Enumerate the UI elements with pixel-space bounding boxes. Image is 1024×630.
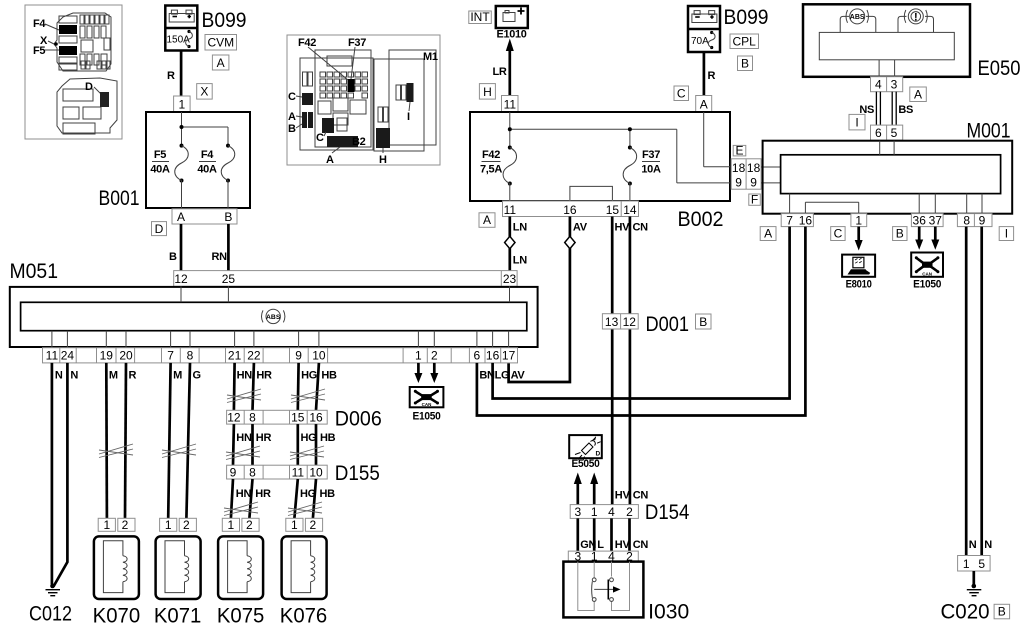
svg-text:11: 11	[292, 466, 305, 480]
fuse F5 40A	[175, 146, 189, 181]
M051 top pin strip 12 25 23	[174, 271, 517, 287]
svg-text:1: 1	[104, 518, 111, 532]
CPL box	[730, 34, 759, 49]
pin strip 6 5 on M001 top	[871, 125, 903, 140]
svg-text:M051: M051	[10, 260, 59, 283]
internal jumper pins 16-15	[570, 186, 613, 201]
arrow M001 pin1 to E8010	[857, 227, 860, 242]
svg-text:15: 15	[606, 203, 620, 217]
CVM box	[205, 35, 237, 51]
H box label	[479, 84, 495, 100]
svg-text:ABS: ABS	[850, 14, 865, 21]
svg-text:R: R	[167, 70, 175, 82]
wire LR arrow up to E1010	[508, 49, 511, 96]
connector A black bar	[327, 136, 358, 147]
B box label	[738, 56, 753, 71]
svg-text:HR: HR	[256, 432, 272, 444]
battery B099 right with 70A fuse	[688, 6, 720, 52]
bottom leads	[789, 194, 791, 214]
wheel sensor K076 rear right	[280, 518, 328, 627]
wire R M051-20 to K070-2	[125, 363, 126, 518]
svg-text:CPL: CPL	[733, 35, 757, 49]
left module front panel	[315, 50, 371, 147]
svg-text:E5050: E5050	[572, 458, 600, 470]
svg-text:8: 8	[963, 213, 970, 227]
svg-text:M001: M001	[967, 120, 1011, 143]
svg-text:19: 19	[100, 349, 114, 363]
svg-text:37: 37	[929, 213, 943, 227]
middle square	[81, 40, 93, 52]
connector C black	[322, 118, 334, 133]
svg-text:N: N	[969, 539, 977, 551]
svg-text:F37: F37	[642, 149, 660, 161]
svg-text:2: 2	[431, 349, 438, 363]
B001 bottom pin strip A B	[172, 209, 237, 224]
svg-text:2: 2	[183, 518, 190, 532]
svg-text:13: 13	[605, 315, 619, 329]
svg-text:7: 7	[167, 349, 174, 363]
C box label	[831, 226, 845, 240]
wires pair box to M001 inner	[761, 166, 781, 168]
wire BN M051-6 to M001-16	[477, 227, 806, 416]
svg-text:70A: 70A	[691, 36, 709, 47]
svg-text:5: 5	[891, 126, 898, 140]
ABS symbol	[262, 309, 285, 323]
leads pins 6 5 into inner	[879, 141, 881, 155]
svg-text:21: 21	[228, 349, 242, 363]
svg-text:HV: HV	[615, 222, 631, 234]
svg-text:HR: HR	[256, 370, 272, 382]
I box label	[849, 114, 865, 129]
svg-text:B: B	[699, 315, 707, 329]
connector C020 pins 1 5	[958, 556, 991, 572]
svg-text:I: I	[855, 115, 858, 129]
node E1050 CAN network icon bottom	[410, 387, 444, 423]
twist mark above D006 right	[291, 389, 325, 403]
wire BS double line	[891, 92, 893, 125]
svg-text:INT: INT	[470, 10, 490, 24]
svg-text:11: 11	[504, 97, 517, 111]
svg-text:HN: HN	[236, 488, 252, 500]
svg-text:C020: C020	[941, 601, 990, 624]
svg-text:12: 12	[227, 411, 241, 425]
M001 pin box 1	[851, 213, 867, 227]
wire AV B002-16 to M051-17	[509, 217, 570, 383]
X box label	[197, 84, 213, 100]
A box label	[910, 87, 927, 102]
svg-text:1: 1	[963, 557, 970, 571]
svg-text:LR: LR	[493, 66, 507, 78]
ABS hydraulic unit M051	[10, 287, 538, 347]
svg-text:3: 3	[574, 505, 581, 519]
svg-text:B: B	[288, 123, 296, 135]
B box label	[696, 314, 712, 329]
pin A box on B002 top	[696, 96, 712, 113]
svg-text:K071: K071	[154, 605, 202, 626]
svg-text:I: I	[407, 111, 410, 123]
svg-text:9: 9	[979, 213, 986, 227]
arrows D154-3 D154-1 up to E5050	[576, 482, 579, 505]
svg-text:R: R	[129, 370, 137, 382]
svg-text:F: F	[751, 193, 758, 207]
wheel sensor K071 front right	[154, 518, 202, 627]
svg-text:!: !	[914, 11, 918, 23]
svg-text:HN: HN	[237, 370, 253, 382]
A box label	[760, 226, 776, 240]
svg-text:G: G	[193, 370, 201, 382]
upper fusebox outline	[54, 13, 111, 71]
svg-text:E1050: E1050	[413, 411, 441, 423]
middle squares	[318, 101, 331, 114]
svg-text:K075: K075	[217, 605, 265, 626]
svg-text:1: 1	[165, 518, 172, 532]
svg-text:F42: F42	[482, 149, 500, 161]
I030 pin strip 3 1 4 2	[568, 550, 638, 564]
arrows M051 pins 1 2 to E1050	[417, 363, 420, 375]
I box label	[999, 226, 1013, 240]
svg-text:1: 1	[591, 505, 598, 519]
svg-text:6: 6	[875, 126, 882, 140]
svg-text:K070: K070	[93, 605, 141, 626]
wire HN M051-21 to D006-12	[233, 363, 236, 410]
svg-text:A: A	[483, 213, 491, 227]
svg-text:40A: 40A	[197, 164, 217, 176]
wires D006 to D155 left pair	[232, 424, 236, 465]
ABS warning lamp	[840, 9, 876, 33]
svg-text:C012: C012	[29, 603, 72, 626]
A box label below B002	[479, 213, 495, 228]
svg-text:9: 9	[750, 175, 757, 189]
brake pedal switch I030	[563, 562, 689, 624]
svg-text:CN: CN	[633, 539, 649, 551]
left tabs	[303, 72, 308, 86]
svg-text:HG: HG	[301, 370, 317, 382]
svg-text:B: B	[998, 605, 1006, 619]
instrument cluster E050	[803, 4, 970, 77]
svg-text:HG: HG	[301, 432, 317, 444]
wire M M051-19 to K070-1	[105, 363, 108, 518]
svg-text:6: 6	[474, 349, 481, 363]
E box label	[733, 143, 746, 157]
svg-text:HN: HN	[236, 432, 252, 444]
svg-text:D: D	[596, 451, 601, 458]
svg-text:N: N	[55, 370, 63, 382]
svg-text:ABS: ABS	[266, 314, 281, 321]
wire N M051-11 to C012	[51, 363, 54, 585]
node E8010 diagnostic connector icon	[842, 255, 875, 291]
svg-text:A: A	[288, 111, 296, 123]
M051 bottom pin strip	[43, 348, 518, 363]
right module front	[389, 50, 436, 145]
internal wiring B001	[181, 112, 183, 146]
svg-text:16: 16	[486, 349, 500, 363]
svg-text:24: 24	[61, 349, 75, 363]
svg-text:12: 12	[623, 315, 637, 329]
svg-text:LN: LN	[513, 255, 527, 267]
splice diamond on AV	[565, 236, 575, 248]
svg-text:A: A	[217, 56, 225, 70]
svg-text:M: M	[109, 370, 118, 382]
svg-text:C: C	[834, 226, 843, 240]
svg-text:4: 4	[875, 78, 882, 92]
wheel sensor K075 rear left	[217, 518, 265, 627]
svg-text:B001: B001	[99, 187, 140, 210]
svg-text:1: 1	[228, 518, 235, 532]
svg-text:CAN: CAN	[922, 272, 932, 277]
svg-text:M: M	[173, 370, 182, 382]
relay box B001	[146, 112, 250, 208]
svg-text:B: B	[896, 226, 904, 240]
svg-text:10A: 10A	[641, 164, 661, 176]
svg-text:10: 10	[309, 466, 323, 480]
svg-text:CAN: CAN	[422, 402, 432, 407]
svg-text:F4: F4	[33, 18, 46, 30]
svg-text:14: 14	[623, 203, 637, 217]
svg-text:D006: D006	[335, 408, 382, 431]
svg-text:CN: CN	[633, 490, 649, 502]
inset: body computer connector drawing	[287, 35, 440, 166]
wires D155 to K075	[231, 479, 233, 518]
lower bracket outline	[57, 78, 117, 133]
top row small slots	[80, 15, 84, 24]
wire N M001-9 to C020-5	[980, 227, 983, 556]
svg-text:40A: 40A	[150, 164, 170, 176]
pin 1 box on B001	[174, 96, 191, 112]
connector grid	[320, 72, 326, 77]
M001 pin strip 36 37	[911, 213, 943, 227]
wire M M051-7 to K071-1	[168, 363, 170, 518]
svg-text:25: 25	[222, 272, 236, 286]
fuse F37 10A	[623, 148, 637, 184]
svg-text:C: C	[288, 91, 296, 103]
left module back plate	[300, 58, 373, 150]
svg-text:A: A	[700, 97, 708, 111]
brake warning lamp (!)	[898, 9, 934, 33]
svg-text:10: 10	[312, 349, 326, 363]
svg-text:R: R	[708, 70, 716, 82]
svg-text:E1010: E1010	[497, 29, 527, 41]
svg-text:CVM: CVM	[207, 36, 234, 50]
svg-text:1: 1	[855, 213, 862, 227]
svg-text:4: 4	[608, 505, 615, 519]
wire HG M051-9 to D006-15	[296, 363, 300, 410]
svg-text:3: 3	[891, 78, 898, 92]
wire HR M051-22 to D006-8	[253, 363, 254, 410]
svg-text:E1050: E1050	[913, 278, 941, 290]
svg-text:HV: HV	[615, 490, 631, 502]
connector D001 pins 13 12	[602, 314, 638, 329]
left fuse column slots	[59, 16, 77, 23]
svg-text:F37: F37	[348, 37, 366, 49]
svg-text:H: H	[483, 85, 492, 99]
F42/F37 black cell	[348, 79, 355, 92]
svg-text:2: 2	[246, 518, 253, 532]
svg-text:8: 8	[187, 349, 194, 363]
svg-text:22: 22	[247, 349, 261, 363]
svg-text:D: D	[85, 81, 93, 93]
wire R B099 to B002 pin A	[703, 52, 706, 96]
fuse F42 7,5A	[503, 148, 517, 184]
E050 internal pin leads	[878, 60, 880, 77]
svg-text:B: B	[224, 210, 232, 224]
wire LG M051-16 to M001-7	[493, 227, 790, 399]
wire RN from B001-B to M051-25	[227, 224, 230, 271]
svg-text:D001: D001	[646, 313, 690, 336]
F box label	[749, 193, 761, 207]
B002 bottom pin strip 11 16 15 14	[503, 201, 639, 217]
wire HB M051-10 to D006-16	[316, 363, 319, 410]
twist mark above D006 left	[227, 389, 261, 403]
svg-text:BS: BS	[898, 104, 913, 116]
wire G M051-8 to K071-2	[186, 363, 190, 518]
svg-text:M1: M1	[423, 51, 438, 63]
wire NS double line	[875, 92, 877, 125]
svg-text:I: I	[1005, 226, 1008, 240]
twist mark K071 pair	[162, 444, 196, 458]
svg-text:B: B	[169, 251, 177, 263]
svg-text:16: 16	[309, 411, 323, 425]
arrows M001 pins 36 37 to E1050	[918, 227, 921, 242]
svg-text:20: 20	[119, 349, 133, 363]
svg-text:8: 8	[249, 466, 256, 480]
svg-text:B002: B002	[678, 208, 724, 231]
svg-text:B2: B2	[352, 136, 366, 148]
wires D154 to I030	[576, 518, 579, 551]
B box label	[893, 226, 907, 240]
svg-text:A: A	[914, 87, 922, 101]
A box label	[212, 55, 229, 70]
node E1010 battery positive	[496, 6, 528, 41]
wires D155 to K076	[294, 479, 297, 518]
svg-text:E: E	[735, 143, 743, 157]
svg-text:A: A	[326, 154, 334, 166]
svg-text:2: 2	[310, 518, 317, 532]
svg-text:B: B	[741, 56, 749, 70]
splice diamond on LN	[505, 236, 515, 248]
fuse F4 40A	[221, 146, 235, 181]
B box label	[994, 604, 1010, 619]
M001 bottom pin strip 7 16	[781, 213, 813, 227]
svg-text:D: D	[155, 222, 164, 236]
svg-text:2: 2	[626, 505, 633, 519]
wires D006 to D155 right pair	[296, 424, 299, 465]
M001 pin strip 8 9	[957, 213, 992, 227]
bottom rows slots	[80, 54, 85, 65]
inset: fusebox location drawing top-left	[25, 5, 122, 139]
svg-text:AV: AV	[573, 222, 588, 234]
svg-text:16: 16	[563, 203, 577, 217]
svg-text:9: 9	[295, 349, 302, 363]
wire N M001-8 to C020-1	[965, 227, 968, 556]
svg-text:9: 9	[230, 466, 237, 480]
svg-text:1: 1	[178, 98, 185, 112]
pin 11 box on B002 top	[502, 96, 519, 113]
pin strip 4 3 below E050	[871, 77, 903, 92]
svg-text:12: 12	[174, 272, 188, 286]
C box label	[674, 86, 689, 101]
svg-text:E8010: E8010	[846, 278, 872, 290]
svg-text:X: X	[200, 85, 208, 99]
node E1050 CAN network icon right	[911, 253, 943, 291]
node E5050 brake lights icon	[569, 435, 602, 470]
M051 top leads	[180, 286, 182, 302]
svg-text:1: 1	[291, 518, 298, 532]
svg-text:N: N	[70, 370, 78, 382]
svg-text:AV: AV	[511, 370, 526, 382]
D box label	[152, 222, 167, 236]
connector D006	[227, 410, 328, 424]
svg-text:8: 8	[249, 411, 256, 425]
svg-text:C: C	[316, 132, 324, 144]
ground C012	[29, 584, 72, 626]
svg-text:18: 18	[747, 161, 761, 175]
wire LN B002-11 to M051-23	[508, 217, 511, 271]
svg-text:I030: I030	[648, 601, 689, 624]
svg-text:16: 16	[799, 213, 813, 227]
svg-text:H: H	[379, 154, 387, 166]
svg-text:A: A	[764, 226, 772, 240]
M051 bottom leads	[51, 331, 53, 348]
svg-text:HB: HB	[320, 488, 336, 500]
svg-text:7,5A: 7,5A	[480, 164, 502, 176]
svg-text:K076: K076	[280, 605, 328, 626]
svg-text:CN: CN	[633, 222, 649, 234]
svg-text:F4: F4	[201, 149, 214, 161]
INT box label	[469, 10, 492, 24]
svg-text:23: 23	[503, 272, 517, 286]
ground C020	[967, 571, 982, 596]
svg-text:C: C	[677, 86, 686, 100]
svg-text:E050: E050	[978, 57, 1021, 80]
svg-text:2: 2	[122, 518, 129, 532]
svg-text:LG: LG	[495, 370, 510, 382]
battery glyph	[171, 10, 177, 14]
svg-text:5: 5	[978, 557, 985, 571]
wire B from B001-A to M051-12	[180, 224, 183, 271]
svg-text:F5: F5	[154, 149, 166, 161]
wire R battery to B001 pin1	[180, 51, 183, 97]
twist mark K070 pair	[99, 444, 133, 458]
second row slots	[80, 26, 85, 38]
svg-text:N: N	[984, 539, 992, 551]
svg-text:LN: LN	[513, 222, 527, 234]
internal wiring B002	[509, 112, 511, 148]
junction unit B002	[470, 112, 730, 201]
wheel sensor K070 front left	[93, 518, 141, 627]
svg-text:L: L	[597, 539, 604, 551]
svg-text:18: 18	[732, 161, 746, 175]
svg-text:1: 1	[415, 349, 422, 363]
svg-text:36: 36	[913, 213, 927, 227]
wire N M051-24 to C012	[54, 363, 68, 587]
svg-text:17: 17	[502, 349, 516, 363]
right module back plate	[374, 59, 424, 151]
svg-text:RN: RN	[212, 251, 228, 263]
wire CN B002-14 to D154-2	[629, 217, 632, 505]
svg-text:F5: F5	[33, 45, 45, 57]
svg-text:F42: F42	[298, 37, 316, 49]
svg-text:D155: D155	[335, 462, 380, 485]
svg-text:9: 9	[735, 175, 742, 189]
connector D155	[227, 465, 328, 479]
wire HV B002-15 to D154-4	[611, 217, 614, 505]
svg-text:11: 11	[504, 203, 517, 217]
svg-text:B099: B099	[202, 9, 247, 32]
pin pair box 18/18 9/9 between B002 and M001	[731, 159, 761, 190]
svg-text:B099: B099	[724, 6, 769, 29]
svg-text:D154: D154	[645, 501, 690, 524]
svg-text:A: A	[177, 210, 185, 224]
